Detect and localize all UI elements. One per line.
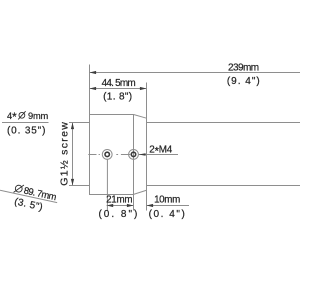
dimension line 239mm xyxy=(90,72,301,74)
label 4*d9mm with drawn diameter symbol xyxy=(7,110,49,124)
extension line right edge down xyxy=(146,190,148,210)
arrow 21mm left xyxy=(107,204,114,207)
extension line 239mm left xyxy=(89,65,91,115)
arrow 239mm left xyxy=(90,71,97,74)
label d89.7mm (3.5") rotated group xyxy=(0,180,59,216)
extension line G top xyxy=(69,122,90,124)
arrow G bottom xyxy=(71,179,74,186)
extension line 44.5mm right xyxy=(146,83,148,119)
arrow leader 2*M4 xyxy=(139,153,146,156)
svg-text:9mm: 9mm xyxy=(28,111,49,121)
svg-text:(0. 35"): (0. 35") xyxy=(7,126,46,137)
centerline through screw holes xyxy=(88,154,130,156)
screw hole 2 inner ring xyxy=(131,152,135,156)
arrow 21mm right / 10mm left xyxy=(127,204,134,207)
arrow 44.5mm right xyxy=(140,87,147,90)
arrow G top xyxy=(71,123,74,130)
screw hole 2 outer xyxy=(129,150,139,160)
svg-text:(1. 8"): (1. 8") xyxy=(103,92,132,103)
tube top edge xyxy=(147,122,301,124)
arrow 10mm right xyxy=(147,204,154,207)
svg-text:10mm: 10mm xyxy=(154,194,180,205)
svg-text:44. 5mm: 44. 5mm xyxy=(102,78,136,89)
dimension line 44.5mm xyxy=(90,88,147,90)
svg-text:(9. 4"): (9. 4") xyxy=(227,76,261,87)
svg-text:21mm: 21mm xyxy=(106,194,132,205)
screw hole 1 outer xyxy=(102,150,112,160)
leader line 2*M4 xyxy=(139,154,178,156)
dimension line 10mm tail xyxy=(147,205,190,207)
fraction bar 4*d9mm xyxy=(2,122,49,124)
extension line below screw 2 xyxy=(133,195,135,211)
svg-text:(0. 8"): (0. 8") xyxy=(98,209,139,220)
svg-text:2*M4: 2*M4 xyxy=(149,145,172,158)
svg-text:G1½ screw: G1½ screw xyxy=(58,121,70,186)
screw hole 1 inner ring xyxy=(105,152,109,156)
block body outline (mount cap, side view) xyxy=(90,115,147,195)
svg-text:(0. 4"): (0. 4") xyxy=(149,209,187,220)
extension line below screw 1 xyxy=(106,159,108,210)
dimension line G1 1/2 screw xyxy=(72,123,74,186)
svg-text:239mm: 239mm xyxy=(228,62,259,73)
tube bottom edge xyxy=(147,185,301,187)
extension line G bottom xyxy=(69,185,90,187)
arrow 44.5mm left xyxy=(90,87,97,90)
dimension line 21mm xyxy=(107,205,134,207)
